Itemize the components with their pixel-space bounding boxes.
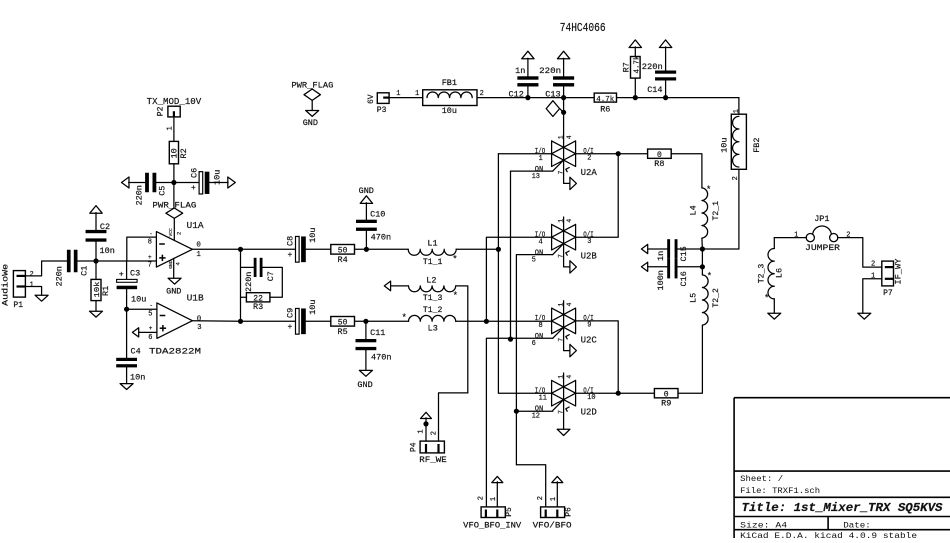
capacitor C14 220n bbox=[659, 40, 671, 48]
ground symbol at C11 bbox=[359, 370, 372, 376]
wire L5 to R9 bbox=[678, 325, 702, 393]
svg-text:AudioWe: AudioWe bbox=[2, 264, 11, 306]
svg-text:1: 1 bbox=[415, 90, 419, 98]
svg-text:1n: 1n bbox=[656, 251, 666, 261]
svg-text:470n: 470n bbox=[371, 233, 392, 243]
wire P2 to R2 bbox=[173, 117, 175, 141]
wire 6V power rail bbox=[477, 97, 594, 99]
svg-text:P3: P3 bbox=[377, 106, 387, 115]
wire C15 node to C16 node bbox=[701, 249, 703, 267]
svg-text:C9: C9 bbox=[285, 308, 295, 318]
svg-text:8: 8 bbox=[539, 322, 543, 330]
wire output vertical link bbox=[240, 249, 242, 321]
resistor R9 0 bbox=[654, 389, 678, 398]
svg-text:L3: L3 bbox=[428, 323, 438, 333]
power flag PWR_FLAG at 6V rail bbox=[546, 101, 559, 117]
wire C11 node to L3 bbox=[366, 320, 409, 322]
svg-text:2: 2 bbox=[430, 431, 438, 435]
svg-text:470n: 470n bbox=[371, 353, 392, 363]
capacitor C11 470n bbox=[365, 321, 367, 340]
capacitor C16 100n bbox=[641, 262, 647, 271]
wire C9 to R5 bbox=[306, 320, 331, 322]
svg-text:2: 2 bbox=[175, 232, 182, 235]
U2B center pin line bbox=[563, 231, 565, 244]
wire U1A output node bbox=[238, 247, 243, 252]
U2C top pin stub bbox=[563, 301, 565, 315]
wire U2C ON 6 bbox=[486, 338, 552, 507]
svg-text:R9: R9 bbox=[661, 399, 671, 409]
svg-text:P6: P6 bbox=[565, 507, 574, 517]
node output B junction bbox=[616, 391, 621, 396]
svg-text:8: 8 bbox=[148, 238, 152, 246]
svg-text:VCC: VCC bbox=[168, 228, 174, 237]
svg-text:6V: 6V bbox=[367, 94, 376, 104]
svg-text:R5: R5 bbox=[337, 327, 347, 337]
wire C7 to R3 right link bbox=[262, 267, 282, 297]
U2A center pin line bbox=[563, 147, 565, 160]
svg-text:6: 6 bbox=[148, 334, 152, 342]
svg-text:R6: R6 bbox=[600, 105, 610, 115]
svg-text:10n: 10n bbox=[100, 246, 115, 256]
svg-text:L1: L1 bbox=[427, 238, 437, 248]
svg-text:C5: C5 bbox=[158, 186, 168, 196]
U1A ground pin 4 bbox=[173, 258, 175, 278]
wire U2B ON 5 bbox=[516, 255, 552, 465]
capacitor C3 10u polarized bbox=[126, 261, 128, 279]
svg-text:T1_2: T1_2 bbox=[423, 305, 443, 315]
svg-text:C3: C3 bbox=[130, 269, 140, 279]
U2C ON pin diagonal bbox=[553, 327, 564, 338]
U2D ground pin bbox=[563, 400, 565, 430]
svg-text:GND: GND bbox=[168, 260, 174, 269]
capacitor C15 1n bbox=[641, 244, 647, 253]
svg-text:C1: C1 bbox=[80, 266, 90, 276]
analog switch U2A bbox=[552, 141, 576, 167]
svg-text:C4: C4 bbox=[131, 346, 141, 356]
capacitor C13 220n bbox=[557, 51, 569, 59]
analog switch U2D bbox=[552, 380, 576, 406]
U2B ON pin diagonal bbox=[553, 244, 564, 255]
svg-text:2: 2 bbox=[537, 496, 545, 500]
wire node to C6 bbox=[174, 182, 199, 184]
svg-text:0: 0 bbox=[197, 315, 202, 323]
capacitor C7 220n bbox=[254, 258, 257, 277]
wire node to C5 bbox=[156, 182, 174, 184]
svg-text:1: 1 bbox=[557, 135, 564, 139]
svg-text:C13: C13 bbox=[545, 89, 560, 99]
node TX_MOD junction bbox=[171, 180, 176, 185]
node output A junction bbox=[616, 151, 621, 156]
wire C6 to right arrow bbox=[209, 182, 228, 184]
svg-text:4: 4 bbox=[566, 303, 573, 307]
node L3-U2C junction bbox=[484, 319, 489, 324]
wire U2C I/O pin 8 bbox=[486, 320, 551, 322]
svg-text:2: 2 bbox=[477, 496, 485, 500]
wire L3 to U2C bbox=[456, 320, 487, 322]
wire node to C8 bbox=[241, 248, 296, 250]
svg-text:C16: C16 bbox=[679, 271, 689, 286]
node L4-C15 junction bbox=[700, 246, 705, 251]
wire R8 to L4 bbox=[671, 154, 702, 188]
svg-text:*: * bbox=[452, 255, 457, 265]
svg-text:P5: P5 bbox=[505, 507, 514, 517]
svg-text:0: 0 bbox=[196, 241, 201, 249]
svg-text:Title: 1st_Mixer_TRX SQ5KVS: Title: 1st_Mixer_TRX SQ5KVS bbox=[742, 502, 943, 515]
svg-text:U1A: U1A bbox=[187, 220, 204, 231]
svg-text:74HC4066: 74HC4066 bbox=[560, 22, 606, 35]
U2B ground pin with arrow bbox=[564, 244, 570, 267]
node B junction bbox=[124, 307, 129, 312]
svg-text:+: + bbox=[288, 323, 293, 332]
wire L6 to JP1 pin1 bbox=[774, 237, 806, 239]
svg-text:L6: L6 bbox=[774, 268, 784, 278]
wire to C7 bbox=[241, 266, 254, 268]
svg-text:JP1: JP1 bbox=[814, 214, 829, 224]
resistor R3 22 bbox=[246, 293, 270, 302]
svg-text:+: + bbox=[288, 251, 293, 260]
resistor R1 10k bbox=[95, 261, 97, 279]
svg-text:GND: GND bbox=[303, 118, 318, 128]
svg-text:*: * bbox=[453, 291, 458, 301]
connector P5 VFO_BFO_INV bbox=[481, 507, 505, 518]
analog switch U2C bbox=[552, 308, 576, 334]
svg-text:220n: 220n bbox=[55, 266, 65, 286]
capacitor C4 10n bbox=[126, 309, 128, 358]
wire U2A I/O pin 1 bbox=[498, 153, 551, 155]
svg-text:13: 13 bbox=[532, 173, 540, 181]
svg-text:2: 2 bbox=[30, 271, 34, 279]
svg-text:T2_2: T2_2 bbox=[711, 288, 721, 308]
svg-text:R8: R8 bbox=[654, 159, 664, 169]
svg-text:5: 5 bbox=[148, 311, 152, 319]
svg-text:3: 3 bbox=[587, 238, 591, 246]
wire L4 to node bbox=[701, 238, 704, 249]
svg-text:C8: C8 bbox=[285, 236, 295, 246]
svg-text:FB2: FB2 bbox=[752, 137, 762, 152]
svg-text:U1B: U1B bbox=[187, 292, 204, 303]
wire P6 pin1 to arrow bbox=[556, 483, 558, 507]
connector P3 6V bbox=[377, 93, 389, 104]
U1B output pin 3 wire bbox=[192, 320, 240, 323]
svg-text:IF_WY: IF_WY bbox=[895, 258, 904, 284]
capacitor C5 220n bbox=[145, 173, 149, 193]
svg-text:1: 1 bbox=[417, 429, 425, 433]
svg-text:C2: C2 bbox=[100, 222, 110, 232]
svg-text:12: 12 bbox=[532, 413, 540, 421]
U2C center pin line bbox=[563, 315, 565, 328]
wire C3 to U1B node bbox=[126, 289, 128, 309]
svg-text:4: 4 bbox=[539, 239, 543, 247]
inductor L1 T1_1 bbox=[408, 249, 456, 255]
svg-text:R3: R3 bbox=[253, 302, 263, 312]
capacitor C1 220n bbox=[67, 250, 71, 273]
svg-text:VFO_BFO_INV: VFO_BFO_INV bbox=[463, 520, 522, 530]
svg-text:+: + bbox=[148, 254, 152, 261]
node C16-L5 junction bbox=[700, 264, 705, 269]
U2B top pin stub bbox=[563, 217, 565, 231]
wire U2D O/I pin 10 bbox=[576, 392, 619, 394]
wire P3 to FB1 bbox=[389, 97, 423, 99]
svg-text:L2: L2 bbox=[426, 275, 436, 285]
svg-text:220n: 220n bbox=[642, 62, 663, 72]
wire to U1B pin 5 bbox=[127, 308, 157, 310]
svg-text:Date:: Date: bbox=[843, 521, 871, 531]
wire R2 to node TX_MOD bbox=[173, 164, 175, 183]
svg-text:C15: C15 bbox=[679, 246, 689, 261]
connector P6 VFO/BFO bbox=[541, 507, 565, 518]
ground symbol at L6 bbox=[768, 313, 781, 319]
svg-text:*: * bbox=[402, 313, 407, 323]
capacitor C9 10u polarized bbox=[296, 308, 300, 334]
node C11 junction bbox=[363, 319, 368, 324]
wire C1 to node A bbox=[77, 260, 96, 262]
svg-text:L5: L5 bbox=[688, 293, 698, 303]
wire U2A ON 13 bbox=[511, 170, 553, 172]
svg-text:1: 1 bbox=[490, 497, 498, 501]
svg-text:2: 2 bbox=[587, 155, 591, 163]
wire U2A O/I pin 2 bbox=[576, 153, 619, 155]
resistor R4 50 bbox=[331, 245, 355, 255]
svg-text:10u: 10u bbox=[131, 295, 146, 305]
node L1-U2A junction bbox=[496, 247, 501, 252]
analog switch U2B bbox=[552, 224, 576, 250]
unconnected arrow at L2 bbox=[384, 281, 390, 291]
svg-text:T1_1: T1_1 bbox=[423, 257, 443, 267]
wire JP1 pin2 to P7 bbox=[838, 238, 882, 268]
svg-text:220n: 220n bbox=[135, 185, 145, 205]
ferrite bead FB1 10u bbox=[423, 90, 477, 106]
ground symbol at R1 bbox=[90, 311, 103, 317]
wire U2B O/I pin 3 bbox=[576, 154, 619, 238]
svg-text:RF_WE: RF_WE bbox=[419, 455, 447, 465]
svg-text:2: 2 bbox=[871, 261, 875, 269]
wire C5 to left arrow bbox=[129, 182, 146, 184]
svg-text:*: * bbox=[764, 294, 769, 304]
wire U2C O/I pin 9 bbox=[576, 321, 619, 393]
wire P1 pin2 to C1 bbox=[25, 261, 67, 276]
svg-text:ON: ON bbox=[535, 333, 543, 341]
wire arrow to L2 bbox=[391, 285, 409, 287]
unconnected arrow left of C5 bbox=[122, 177, 130, 188]
wire R3 left bbox=[241, 296, 247, 298]
node C10 junction bbox=[364, 247, 369, 252]
svg-text:+: + bbox=[191, 184, 196, 193]
wire U1B pin 6 to arrow bbox=[139, 331, 157, 333]
svg-text:*: * bbox=[706, 185, 711, 195]
svg-text:KiCad E.D.A. kicad 4.0.9 sta: KiCad E.D.A. kicad 4.0.9 stable bbox=[740, 531, 917, 538]
svg-text:10u: 10u bbox=[442, 106, 457, 116]
wire R9 left bbox=[618, 392, 654, 394]
svg-text:P7: P7 bbox=[883, 289, 893, 298]
wire C8 to R4 bbox=[306, 248, 331, 250]
wire L6 to ground bbox=[773, 299, 775, 313]
ground symbol below PWR_FLAG bbox=[306, 111, 319, 117]
svg-text:L4: L4 bbox=[688, 205, 698, 215]
resistor R8 0 bbox=[648, 149, 672, 158]
svg-text:VFO/BFO: VFO/BFO bbox=[533, 520, 572, 530]
svg-text:10: 10 bbox=[587, 394, 595, 402]
connector P4 RF_WE bbox=[420, 441, 444, 453]
svg-text:GND: GND bbox=[357, 380, 372, 390]
svg-text:File: TRXF1.sch: File: TRXF1.sch bbox=[740, 486, 820, 496]
inductor L6 T2_3 bbox=[773, 238, 775, 249]
node A junction bbox=[93, 258, 98, 263]
svg-text:TDA2822M: TDA2822M bbox=[149, 346, 201, 356]
svg-text:P4: P4 bbox=[410, 442, 419, 452]
svg-text:R2: R2 bbox=[179, 148, 189, 158]
svg-text:T2_3: T2_3 bbox=[757, 264, 767, 284]
resistor R5 50 bbox=[331, 317, 355, 327]
U2D ON pin diagonal bbox=[553, 400, 564, 411]
inductor L2 T1_3 bbox=[409, 286, 456, 292]
wire node to C9 bbox=[241, 320, 296, 322]
svg-text:4: 4 bbox=[566, 375, 573, 379]
svg-text:1: 1 bbox=[733, 109, 741, 113]
wire R4 to C10 node bbox=[355, 248, 367, 250]
svg-text:U2C: U2C bbox=[581, 335, 598, 345]
ground symbol at P7 bbox=[858, 313, 871, 319]
svg-text:C7: C7 bbox=[266, 271, 276, 281]
svg-text:9: 9 bbox=[587, 322, 591, 330]
svg-text:10n: 10n bbox=[130, 373, 145, 383]
svg-text:+: + bbox=[149, 325, 153, 332]
node U2A/U2C ON junction bbox=[508, 337, 513, 342]
svg-text:Size: A4: Size: A4 bbox=[740, 521, 787, 531]
wire P7 pin1 to ground bbox=[863, 279, 882, 313]
svg-text:FB1: FB1 bbox=[442, 78, 457, 88]
svg-text:JUMPER: JUMPER bbox=[805, 243, 840, 253]
svg-text:Sheet: /: Sheet: / bbox=[740, 474, 783, 484]
op-amp U1B TDA2822M bbox=[157, 303, 193, 339]
capacitor C8 10u polarized bbox=[296, 236, 300, 262]
svg-text:T1_3: T1_3 bbox=[423, 293, 443, 303]
svg-text:+: + bbox=[119, 271, 124, 280]
svg-text:4.7k: 4.7k bbox=[596, 96, 614, 104]
svg-text:6: 6 bbox=[532, 340, 536, 348]
U2D center pin line bbox=[563, 387, 565, 400]
svg-text:C6: C6 bbox=[190, 168, 200, 178]
svg-text:-: - bbox=[149, 302, 153, 309]
U2D top pin stub bbox=[563, 373, 565, 387]
svg-text:220n: 220n bbox=[244, 272, 254, 292]
wire U2B I/O pin 4 bbox=[486, 237, 551, 321]
svg-text:T2_1: T2_1 bbox=[711, 201, 721, 221]
ferrite bead FB2 10u bbox=[731, 114, 746, 169]
svg-text:P2: P2 bbox=[157, 106, 166, 116]
wire P6 pin2 link bbox=[516, 465, 545, 507]
resistor R6 4.7k bbox=[594, 93, 616, 102]
wire P1 pin1 to ground bbox=[25, 287, 41, 296]
svg-text:4.7k: 4.7k bbox=[634, 55, 642, 73]
connector P7 IF_WY bbox=[882, 261, 894, 286]
wire U2A ON to U2C ON vertical bbox=[510, 171, 512, 339]
svg-text:U2A: U2A bbox=[581, 168, 598, 178]
svg-text:-: - bbox=[149, 230, 153, 237]
wire bus U2A-U2D I/O vertical bbox=[498, 154, 551, 394]
svg-text:U2B: U2B bbox=[581, 252, 598, 262]
svg-text:1: 1 bbox=[539, 155, 543, 163]
title block frame bbox=[734, 398, 950, 538]
wire node A to U1 inputs bbox=[96, 260, 156, 262]
svg-text:11: 11 bbox=[539, 395, 547, 403]
resistor R2 10 bbox=[169, 141, 178, 163]
svg-text:5: 5 bbox=[532, 257, 536, 265]
U1A output pin 1 wire bbox=[192, 248, 240, 250]
capacitor C2 10n bbox=[90, 206, 102, 214]
U2C ground pin with arrow bbox=[564, 327, 570, 350]
node U1B output junction bbox=[238, 319, 243, 324]
svg-text:10u: 10u bbox=[308, 299, 318, 314]
ground symbol at U1A bbox=[168, 278, 181, 284]
capacitor C6 10u polarized bbox=[199, 172, 203, 194]
wire PWR_FLAG to GND bbox=[311, 100, 313, 110]
wire C10 node to L1 bbox=[366, 248, 408, 250]
wire L1 to U2 node bbox=[456, 248, 498, 250]
svg-text:C12: C12 bbox=[509, 89, 524, 99]
resistor R7 4.7k bbox=[629, 40, 641, 48]
svg-text:220n: 220n bbox=[539, 66, 561, 76]
U2A ON pin diagonal bbox=[553, 160, 564, 171]
svg-text:GND: GND bbox=[359, 186, 374, 196]
svg-text:1: 1 bbox=[550, 497, 558, 501]
wire U2D ON 12 bbox=[516, 410, 552, 412]
svg-text:GND: GND bbox=[166, 287, 181, 297]
op-amp U1A TDA2822M bbox=[156, 232, 192, 268]
svg-text:1: 1 bbox=[196, 251, 201, 259]
capacitor C12 1n bbox=[522, 51, 534, 59]
wire node to PWR_FLAG and U1A VCC pin bbox=[173, 183, 175, 209]
svg-text:U2D: U2D bbox=[581, 408, 597, 418]
wire to R8 bbox=[618, 153, 647, 155]
svg-text:100n: 100n bbox=[656, 270, 666, 290]
svg-text:10u: 10u bbox=[719, 137, 729, 152]
svg-text:10u: 10u bbox=[308, 227, 318, 242]
wire P4 pin1 to arrow bbox=[425, 424, 427, 441]
ground symbol at U2D bbox=[557, 429, 570, 435]
wire rail to FB2 bbox=[738, 98, 740, 115]
svg-text:P1: P1 bbox=[13, 301, 23, 310]
wire C13 and rail to U2A VCC bbox=[563, 87, 565, 148]
unconnected arrow at U1B pin 6 bbox=[132, 328, 138, 337]
wire P4 pin2 to L2 bbox=[439, 393, 468, 441]
ground symbol at P1 bbox=[35, 295, 48, 301]
svg-text:R7: R7 bbox=[622, 62, 632, 72]
svg-text:1n: 1n bbox=[515, 66, 525, 76]
connector P1 AudioWe bbox=[13, 271, 25, 298]
unconnected arrow right of C6 bbox=[228, 177, 236, 188]
svg-text:C11: C11 bbox=[370, 328, 385, 338]
wire R5 to C11 node bbox=[355, 320, 366, 322]
node U2D ON junction bbox=[514, 409, 519, 414]
wire L2 right to P4 link bbox=[456, 286, 468, 393]
svg-text:1: 1 bbox=[30, 282, 34, 290]
svg-text:R4: R4 bbox=[337, 255, 347, 265]
svg-text:3: 3 bbox=[197, 324, 202, 332]
ground symbol at C4 bbox=[120, 384, 133, 390]
U2A ground pin with arrow bbox=[564, 160, 570, 183]
svg-text:ON: ON bbox=[535, 250, 543, 258]
svg-text:7: 7 bbox=[148, 261, 152, 269]
svg-text:4: 4 bbox=[566, 219, 573, 223]
svg-text:4: 4 bbox=[566, 135, 573, 139]
svg-text:C14: C14 bbox=[647, 85, 662, 95]
wire U1A inverting input pin 8 bbox=[127, 237, 157, 261]
wire FB2 pin2 down to C15 node bbox=[738, 169, 740, 249]
wire P5 pin1 to arrow bbox=[496, 483, 498, 507]
svg-text:C10: C10 bbox=[370, 209, 385, 219]
svg-text:R1: R1 bbox=[101, 286, 111, 296]
